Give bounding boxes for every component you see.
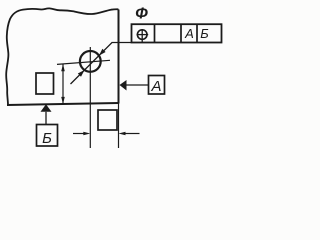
datum B triangle on bottom face [41,104,52,112]
datum A triangle on right face [120,80,127,91]
horizontal dimension arrowhead left-pointing [119,132,126,136]
svg-text:Б: Б [200,26,209,41]
plate outline (broken-out view, wavy top and left edges) [6,8,118,104]
horizontal dimension tail left [73,133,85,135]
svg-text:А: А [150,78,161,95]
feature control frame [132,24,222,42]
svg-text:Б: Б [42,130,52,147]
vertical dimension arrowhead down [61,97,65,104]
position symbol horizontal stroke [137,34,149,36]
svg-text:Ф: Ф [135,6,148,23]
plate bottom edge [7,103,119,105]
leader arrowhead at hole lower left [78,70,85,77]
frame divider 3 [196,24,198,42]
position tolerance symbol circle [137,30,147,40]
frame divider 2 [180,24,182,42]
position symbol vertical stroke [141,29,143,42]
leader from tolerance frame through hole [71,43,132,85]
hole horizontal centerline [57,60,110,64]
basic dimension box (horizontal) [98,110,117,130]
hole circle [80,51,101,72]
vertical dimension arrowhead up [61,64,65,71]
hole vertical centerline / extension line [89,47,91,148]
extension line from right face below plate [118,104,120,149]
datum A box [149,76,165,95]
datum A connecting line [127,84,149,86]
datum B connecting line [45,112,47,125]
datum B box [37,125,58,147]
leader arrowhead at hole upper right [99,49,106,56]
vertical dimension line (hole axis to bottom face) [62,64,64,104]
svg-text:А: А [184,26,194,41]
horizontal dimension arrowhead right-pointing [83,132,90,136]
plate right edge [118,10,120,104]
basic dimension box (vertical) [36,73,54,94]
frame divider 1 [154,24,156,42]
horizontal dimension tail right [124,133,140,135]
